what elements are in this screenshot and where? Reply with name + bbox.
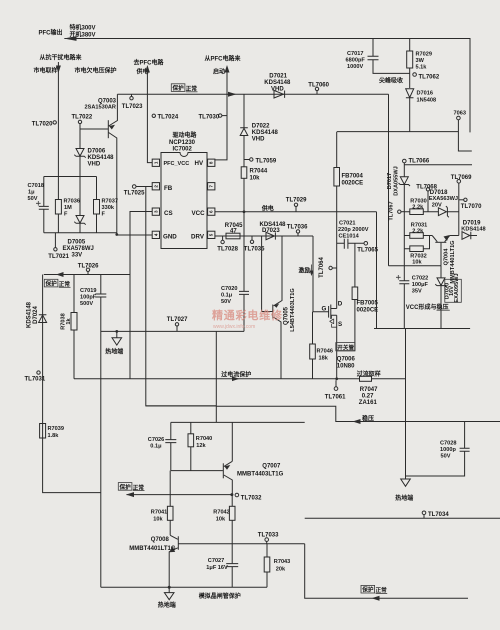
svg-text:HV: HV — [195, 160, 204, 167]
svg-text:TL7060: TL7060 — [308, 82, 329, 88]
resistor R7047 — [360, 376, 372, 381]
svg-text:100μF: 100μF — [412, 282, 429, 288]
svg-text:Q7008: Q7008 — [151, 537, 170, 543]
node TL7067 — [401, 211, 404, 213]
SECTION E: VCC block right — [374, 94, 486, 328]
svg-text:4: 4 — [153, 233, 158, 236]
svg-text:正常: 正常 — [59, 280, 71, 288]
diode D7016 — [406, 89, 414, 132]
svg-text:G: G — [322, 306, 327, 313]
resistor R7030 — [404, 211, 438, 213]
svg-text:C7026: C7026 — [148, 437, 164, 443]
svg-text:D7022: D7022 — [252, 124, 270, 130]
svg-text:0.27: 0.27 — [362, 394, 374, 400]
wire Q7008 base line — [178, 543, 304, 545]
svg-text:TL7065: TL7065 — [357, 248, 378, 254]
svg-text:C7017: C7017 — [347, 51, 363, 57]
node TL7026 — [87, 272, 89, 275]
node 保护正常 label bottom — [361, 585, 375, 593]
resistor R7031 — [404, 235, 432, 237]
svg-text:Q7005: Q7005 — [284, 306, 290, 325]
svg-text:KDS4148: KDS4148 — [264, 80, 291, 86]
svg-text:C7020: C7020 — [221, 286, 237, 292]
svg-text:KDS4148: KDS4148 — [461, 227, 485, 233]
resistor R7046 — [312, 312, 314, 379]
svg-text:KDS4148: KDS4148 — [260, 222, 287, 228]
node TL7023 — [131, 94, 133, 96]
wire GND line — [117, 234, 152, 236]
svg-text:DXA055WJ: DXA055WJ — [394, 166, 400, 196]
wire FB dropper — [146, 187, 217, 406]
node TL7021 — [54, 233, 56, 248]
ground hot bottom — [168, 587, 170, 592]
svg-text:0.1μ: 0.1μ — [221, 293, 233, 299]
svg-text:R7032: R7032 — [410, 253, 426, 259]
svg-text:MMBT4403LT1G: MMBT4403LT1G — [237, 471, 284, 477]
svg-text:R7044: R7044 — [250, 169, 268, 175]
svg-text:C7019: C7019 — [80, 288, 96, 294]
node TL7025 — [136, 186, 152, 188]
resistor R7041 — [169, 471, 171, 536]
node TL7024 — [147, 94, 152, 162]
node TL7036 — [297, 233, 299, 236]
transistor Q7007 — [222, 463, 224, 478]
svg-text:D7016: D7016 — [417, 91, 433, 97]
svg-text:R7037: R7037 — [102, 199, 118, 205]
node TL7034 — [305, 517, 500, 519]
svg-text:1M: 1M — [64, 205, 72, 211]
svg-text:启动: 启动 — [213, 68, 225, 76]
svg-text:TL7069: TL7069 — [451, 175, 472, 181]
svg-text:D7019: D7019 — [463, 220, 481, 226]
svg-text:TL7036: TL7036 — [287, 225, 308, 231]
svg-text:20V: 20V — [432, 202, 442, 208]
wire VCC supply line — [215, 211, 377, 213]
node TL7065 — [364, 242, 368, 246]
svg-text:FB7005: FB7005 — [357, 301, 379, 307]
wire VCC block bottom rail — [374, 328, 470, 330]
svg-text:TL7066: TL7066 — [409, 159, 430, 165]
wire bottom circuit top rail — [171, 421, 305, 423]
wire VCC block left column — [403, 212, 405, 329]
svg-text:330k: 330k — [102, 205, 115, 211]
svg-text:TL7021: TL7021 — [48, 254, 69, 260]
svg-text:TL7026: TL7026 — [78, 264, 99, 270]
svg-text:2.2k: 2.2k — [412, 228, 424, 234]
svg-text:FB7004: FB7004 — [342, 174, 364, 180]
node TL7033 — [266, 541, 268, 543]
node TL7027 — [176, 326, 178, 331]
svg-text:12k: 12k — [196, 443, 206, 449]
wire ground to bottom rail dropper — [215, 331, 217, 422]
node 保护正常 label mid — [118, 483, 132, 491]
svg-text:R7043: R7043 — [274, 559, 290, 565]
svg-text:1μ: 1μ — [28, 190, 35, 196]
svg-text:1k: 1k — [66, 318, 72, 325]
svg-text:220p 2000V: 220p 2000V — [338, 227, 369, 233]
diode D7006 zener — [74, 124, 85, 177]
svg-text:热地端: 热地端 — [158, 601, 176, 609]
svg-text:TL7064: TL7064 — [319, 257, 325, 278]
svg-text:保护: 保护 — [119, 483, 132, 491]
svg-text:0.1μ: 0.1μ — [150, 444, 162, 450]
svg-text:精通彩电维修: 精通彩电维修 — [212, 308, 283, 322]
svg-text:2: 2 — [153, 185, 158, 188]
wire top rail of VCC block — [404, 164, 472, 166]
svg-text:VHD: VHD — [88, 162, 101, 168]
svg-text:TL7028: TL7028 — [217, 247, 238, 253]
wire protection bus — [117, 93, 388, 95]
svg-text:TL7025: TL7025 — [124, 191, 145, 197]
node TL7032 — [235, 493, 239, 497]
svg-text:D7017: D7017 — [387, 173, 393, 189]
svg-text:IC7002: IC7002 — [173, 146, 193, 152]
svg-text:FB: FB — [164, 185, 173, 192]
resistor R7036 — [57, 177, 59, 233]
svg-text:TL7020: TL7020 — [32, 122, 53, 128]
svg-text:热地端: 热地端 — [105, 348, 123, 356]
svg-text:CE1014: CE1014 — [339, 234, 360, 240]
svg-text:3W: 3W — [416, 58, 425, 64]
svg-text:2.2k: 2.2k — [412, 204, 424, 210]
svg-text:D7006: D7006 — [88, 149, 106, 155]
transistor Q7008 — [177, 536, 179, 550]
diode D7005 zener — [74, 177, 85, 233]
svg-text:1.8k: 1.8k — [48, 433, 60, 439]
capacitor C7018 — [43, 177, 45, 233]
resistor R7045 — [226, 233, 240, 239]
svg-text:过电流保护: 过电流保护 — [221, 370, 251, 378]
resistor R7032 — [404, 236, 429, 249]
node 开关管 label — [336, 343, 355, 351]
svg-text:市电欠电压保护: 市电欠电压保护 — [75, 67, 117, 75]
svg-text:保护: 保护 — [172, 84, 185, 92]
node TL7061 — [335, 380, 337, 387]
svg-text:TL7029: TL7029 — [286, 198, 307, 204]
svg-text:100pF: 100pF — [80, 295, 97, 301]
transistor Q7005 — [262, 236, 282, 379]
svg-text:TL7061: TL7061 — [325, 395, 346, 401]
svg-text:10k: 10k — [250, 176, 261, 182]
wire divider bottom rail — [44, 232, 117, 234]
svg-text:F: F — [64, 212, 68, 218]
svg-text:从PFC电路来: 从PFC电路来 — [205, 55, 242, 63]
ground hot mid — [116, 331, 118, 337]
wire PFC output bus — [64, 39, 470, 133]
svg-text:C7022: C7022 — [412, 276, 428, 282]
svg-text:www.jdwx.info.com: www.jdwx.info.com — [213, 324, 255, 330]
node pin 1 PFC_VCC — [152, 159, 159, 166]
svg-text:TL7027: TL7027 — [167, 317, 188, 323]
wire drain top rail — [337, 131, 458, 133]
node TL7031 — [37, 371, 40, 374]
diode D7024 — [43, 275, 101, 493]
svg-text:激励: 激励 — [299, 267, 311, 275]
wire bottom ground rail — [101, 586, 267, 588]
svg-text:TL7070: TL7070 — [461, 204, 482, 210]
svg-text:TL7022: TL7022 — [72, 115, 93, 121]
svg-text:EXA563WJ: EXA563WJ — [429, 196, 458, 202]
svg-text:8: 8 — [209, 161, 214, 164]
svg-text:R7042: R7042 — [213, 510, 229, 516]
resistor R7037 — [96, 177, 98, 233]
svg-text:47: 47 — [230, 229, 237, 235]
diode D7023 — [266, 232, 275, 239]
svg-text:R7041: R7041 — [151, 510, 167, 516]
svg-text:NCP1230: NCP1230 — [169, 140, 196, 146]
svg-text:R7046: R7046 — [317, 349, 333, 355]
svg-text:3: 3 — [153, 210, 158, 213]
node TL7022 — [78, 120, 81, 123]
svg-text:10N80: 10N80 — [337, 364, 355, 370]
svg-text:R7036: R7036 — [64, 199, 80, 205]
node pin 6 VCC — [208, 208, 215, 215]
svg-text:开机380V: 开机380V — [70, 31, 96, 39]
wire Q7007 base line — [171, 470, 223, 472]
wire divider top rail — [44, 176, 97, 178]
svg-text:D7018: D7018 — [430, 190, 448, 196]
node TL7060 — [316, 91, 318, 95]
svg-text:热地端: 热地端 — [395, 494, 413, 502]
capacitor C7027 — [231, 544, 233, 588]
resistor R7044 — [241, 167, 247, 179]
svg-text:35V: 35V — [412, 289, 422, 295]
svg-text:正常: 正常 — [133, 483, 145, 491]
node pin 2 FB — [152, 183, 159, 190]
svg-text:TL7030: TL7030 — [199, 115, 220, 121]
svg-text:PFC_VCC: PFC_VCC — [164, 161, 190, 167]
wire HV startup riser — [215, 68, 227, 160]
node TL7028 — [222, 236, 224, 240]
svg-text:EXA095WJ: EXA095WJ — [454, 273, 460, 302]
resistor R7042 — [231, 495, 233, 544]
svg-text:尖峰吸收: 尖峰吸收 — [379, 77, 403, 85]
svg-text:KDS4148: KDS4148 — [252, 130, 279, 136]
svg-text:TL7023: TL7023 — [122, 104, 143, 110]
svg-text:R7039: R7039 — [48, 426, 64, 432]
node pin 3 CS — [152, 208, 159, 215]
node pin 8 HV — [208, 159, 215, 166]
svg-text:保护: 保护 — [361, 586, 374, 594]
svg-text:1000p: 1000p — [440, 447, 456, 453]
svg-text:TL7062: TL7062 — [419, 75, 440, 81]
node TL7069 — [457, 180, 461, 184]
resistor R7029 — [409, 39, 411, 89]
ground hot right — [405, 329, 407, 477]
node 保护正常 label left — [44, 279, 58, 287]
svg-text:1μF 16V: 1μF 16V — [206, 565, 228, 571]
svg-text:DRV: DRV — [191, 233, 205, 240]
svg-text:稳压: 稳压 — [362, 415, 374, 423]
wire overcurrent sense line — [74, 378, 406, 380]
svg-text:从抗干扰电路来: 从抗干扰电路来 — [40, 54, 83, 62]
node TL7062 — [413, 73, 417, 77]
svg-text:2SA1530AR: 2SA1530AR — [85, 105, 116, 111]
svg-text:50V: 50V — [221, 299, 231, 305]
node TL7035 — [251, 236, 253, 240]
capacitor C7021 — [337, 242, 364, 244]
svg-text:特机300V: 特机300V — [70, 24, 96, 32]
node PFC output arrow — [64, 36, 77, 41]
svg-text:保护: 保护 — [45, 280, 58, 288]
svg-text:50V: 50V — [441, 454, 451, 460]
svg-text:C7021: C7021 — [339, 221, 355, 227]
node 保护正常 label top — [171, 84, 185, 92]
svg-text:EXA578WJ: EXA578WJ — [63, 246, 94, 252]
transistor Q7004 — [435, 241, 446, 243]
svg-text:5: 5 — [209, 233, 214, 236]
wire right protection return — [305, 544, 468, 599]
node TL7068 — [427, 191, 429, 212]
svg-text:10k: 10k — [216, 516, 226, 522]
svg-text:10k: 10k — [412, 260, 422, 266]
diode D7019 — [462, 232, 477, 240]
svg-text:MMBT4401LT1G: MMBT4401LT1G — [129, 546, 176, 552]
node pin 7 — [208, 183, 215, 190]
node TL7059 — [244, 158, 250, 167]
op-amp U1 IC7002 NCP1230 body — [161, 153, 207, 249]
ferrite FB7004 — [336, 132, 338, 309]
transistor Q7003 — [107, 120, 109, 138]
ferrite FB7005 — [337, 243, 355, 351]
diode D7021 — [274, 90, 285, 98]
svg-text:供电: 供电 — [261, 205, 274, 213]
svg-text:市电取样: 市电取样 — [34, 67, 58, 75]
wire protection-normal CS line — [44, 274, 130, 276]
svg-text:TL7024: TL7024 — [158, 115, 179, 121]
svg-text:正常: 正常 — [376, 586, 388, 594]
svg-text:去PFC电路: 去PFC电路 — [134, 59, 165, 67]
svg-text:TL7032: TL7032 — [241, 495, 262, 501]
capacitor C7019 — [100, 275, 102, 588]
resistor R7040 — [190, 422, 192, 470]
svg-text:Q7007: Q7007 — [262, 463, 281, 469]
svg-text:5.1k: 5.1k — [416, 65, 428, 71]
svg-text:R7029: R7029 — [416, 52, 432, 58]
svg-text:KDS4148: KDS4148 — [88, 155, 115, 161]
node pin 5 DRV — [208, 231, 215, 238]
diode D7022 — [240, 94, 248, 157]
wire bus dropper to raw rail — [389, 94, 442, 266]
svg-text:VHD: VHD — [271, 86, 284, 92]
diode D7020 zener — [435, 266, 446, 329]
node TL7020 — [53, 121, 56, 124]
wire DRV line — [215, 235, 313, 237]
svg-text:C7018: C7018 — [28, 183, 44, 189]
SECTION A: top bus — [39, 24, 472, 152]
SECTION B: protection bus and sampling — [25, 54, 389, 588]
svg-text:18k: 18k — [319, 356, 329, 362]
svg-text:C7027: C7027 — [208, 558, 224, 564]
svg-text:6: 6 — [209, 210, 214, 213]
svg-text:TL7059: TL7059 — [256, 159, 277, 165]
svg-text:ZA161: ZA161 — [359, 400, 378, 406]
SECTION D: MOSFET area — [74, 132, 500, 519]
svg-text:1000V: 1000V — [347, 64, 363, 70]
resistor R7039 — [40, 424, 46, 439]
diode D7018 zener — [438, 206, 458, 217]
svg-text:L54BT4403LT1G: L54BT4403LT1G — [290, 288, 296, 331]
svg-text:VHD: VHD — [252, 137, 265, 143]
svg-text:D7021: D7021 — [269, 74, 287, 80]
svg-text:7063: 7063 — [454, 111, 466, 117]
node TL7064 — [332, 267, 336, 269]
wire hot ground line — [101, 330, 244, 332]
wire CS line — [130, 212, 152, 379]
svg-text:CS: CS — [164, 210, 173, 217]
svg-text:TL7067: TL7067 — [388, 201, 394, 220]
capacitor C7022 — [399, 281, 409, 284]
SECTION F: bottom protection — [101, 308, 468, 609]
resistor R7038 — [73, 275, 75, 379]
svg-text:R7040: R7040 — [196, 436, 212, 442]
node TL7030 — [222, 115, 227, 117]
wire VCC wire dropper — [376, 212, 378, 329]
node TL7066 — [403, 159, 407, 163]
svg-text:Q7006: Q7006 — [337, 357, 356, 363]
svg-text:R7047: R7047 — [360, 387, 378, 393]
svg-text:GND: GND — [163, 233, 177, 240]
svg-text:1: 1 — [153, 161, 158, 164]
svg-text:TL7033: TL7033 — [258, 532, 279, 538]
svg-text:500V: 500V — [80, 301, 93, 307]
svg-text:C7028: C7028 — [440, 441, 456, 447]
svg-text:33V: 33V — [72, 253, 83, 259]
capacitor C7028 — [406, 422, 465, 477]
svg-text:10k: 10k — [153, 516, 163, 522]
svg-text:PFC输出: PFC输出 — [39, 29, 63, 37]
wire regulation feedback — [146, 406, 500, 422]
svg-text:1N5408: 1N5408 — [417, 98, 437, 104]
svg-text:Q7004: Q7004 — [443, 248, 449, 266]
node TL7029 — [295, 207, 297, 212]
node TL7070 — [459, 199, 464, 201]
svg-text:7: 7 — [209, 185, 214, 188]
capacitor C7020 — [243, 212, 245, 332]
svg-text:VCC: VCC — [192, 210, 206, 217]
svg-text:S: S — [338, 321, 342, 328]
capacitor C7017 — [373, 39, 410, 74]
svg-text:VCC形成与稳压: VCC形成与稳压 — [406, 303, 449, 311]
svg-text:正常: 正常 — [186, 85, 198, 93]
svg-text:TL7031: TL7031 — [25, 377, 46, 383]
wire to PFC supply riser — [146, 68, 148, 94]
node pin 4 GND — [152, 231, 159, 238]
svg-text:KDS4148: KDS4148 — [27, 301, 33, 328]
svg-text:D7024: D7024 — [33, 306, 39, 324]
resistor R7043 — [266, 544, 268, 588]
svg-text:6800pF: 6800pF — [346, 58, 366, 64]
svg-text:开关管: 开关管 — [337, 343, 354, 351]
svg-text:0020CE: 0020CE — [342, 181, 364, 187]
svg-text:20k: 20k — [276, 567, 286, 573]
svg-text:模拟晶闸管保护: 模拟晶闸管保护 — [199, 592, 241, 600]
diode D7017 zener — [399, 177, 410, 212]
svg-text:TL7034: TL7034 — [428, 512, 449, 518]
svg-text:50V: 50V — [28, 196, 38, 202]
capacitor C7026 — [170, 422, 172, 470]
svg-text:过流取样: 过流取样 — [357, 370, 381, 378]
wire mains sample line — [57, 62, 59, 177]
wire protection trigger line — [127, 494, 232, 496]
svg-text:0020CE: 0020CE — [357, 308, 379, 314]
svg-text:驱动电路: 驱动电路 — [173, 131, 198, 139]
wire gate drive — [313, 236, 329, 312]
svg-text:D7023: D7023 — [262, 228, 280, 234]
svg-text:D7005: D7005 — [68, 240, 86, 246]
SECTION C: IC7002 area — [117, 94, 377, 406]
svg-text:D: D — [338, 301, 343, 308]
